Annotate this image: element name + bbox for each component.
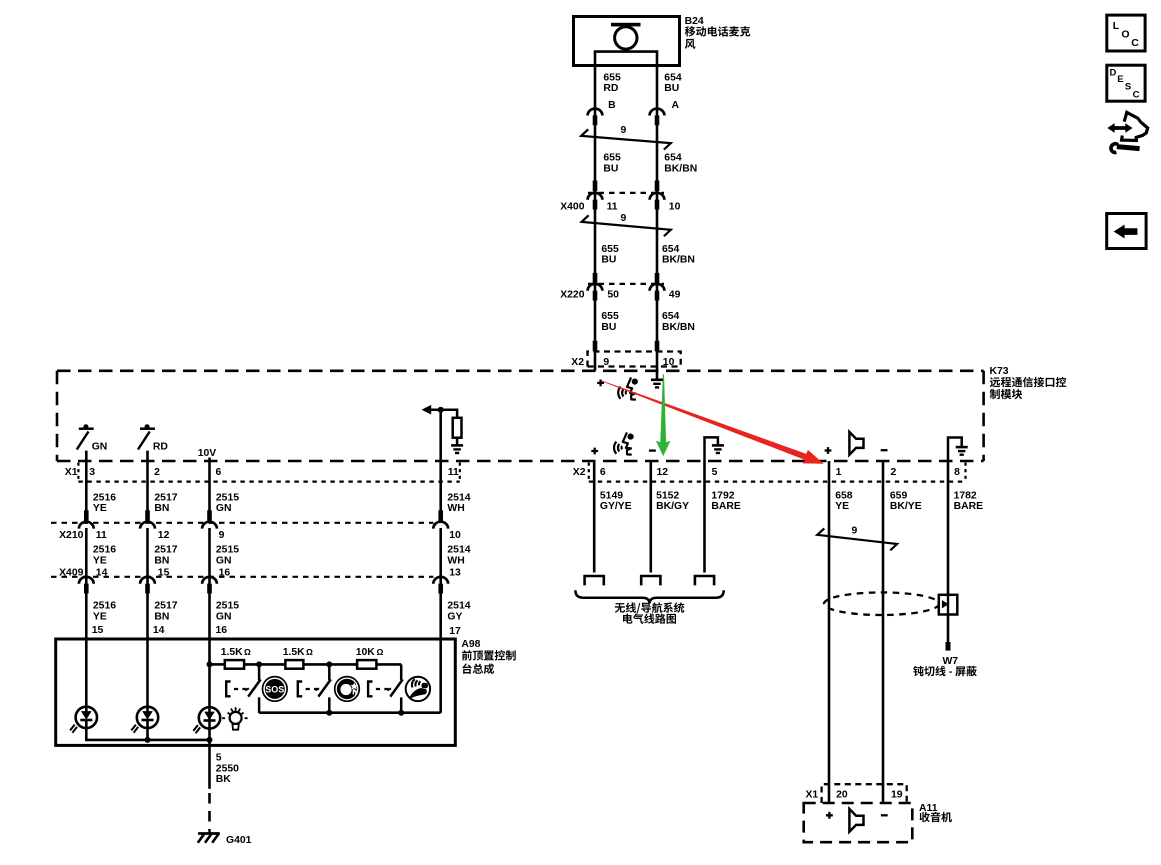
LED L3 xyxy=(193,707,220,733)
switch S3 (phone) xyxy=(387,664,403,713)
svg-text:E: E xyxy=(1117,74,1123,85)
connector X210 terminal pin 9 xyxy=(202,510,217,528)
radio speaker icon xyxy=(849,809,863,832)
svg-text:BK/BN: BK/BN xyxy=(662,322,695,333)
svg-text:C: C xyxy=(1133,89,1140,100)
svg-text:11: 11 xyxy=(96,530,107,541)
svg-text:10V: 10V xyxy=(198,448,217,459)
ground symbol under resistor xyxy=(451,445,463,453)
wire from RD LED to pin 2 xyxy=(146,451,149,523)
wire from 10V to pin 6 xyxy=(208,458,211,523)
pull-up resistor inside K73 xyxy=(456,410,459,445)
svg-text:13: 13 xyxy=(449,567,461,578)
svg-text:5149: 5149 xyxy=(600,490,623,501)
node - (speaker) xyxy=(881,449,888,451)
switch S1 bracket xyxy=(226,682,230,697)
svg-text:Ω: Ω xyxy=(377,647,384,657)
LED indicator RD xyxy=(138,424,155,449)
svg-text:A: A xyxy=(672,100,680,111)
svg-text:GN: GN xyxy=(92,441,108,452)
svg-text:YE: YE xyxy=(835,501,849,512)
junction node S3/rail xyxy=(398,710,404,716)
connector X210 terminal pin 10 xyxy=(433,510,448,528)
node - (mic lower) xyxy=(649,449,656,451)
svg-text:9: 9 xyxy=(852,526,858,537)
svg-text:WH: WH xyxy=(447,555,464,566)
svg-text:2515: 2515 xyxy=(216,492,239,503)
svg-text:19: 19 xyxy=(891,790,903,801)
connector X2 dashed box (top) xyxy=(588,352,681,367)
junction node L2/rail xyxy=(145,737,151,743)
wireless/nav note line2 xyxy=(623,613,676,623)
wire pin 5 below A98 xyxy=(208,740,211,789)
junction node on wire 2514 xyxy=(438,407,444,413)
svg-text:2514: 2514 xyxy=(447,601,470,612)
node + (mic input upper) xyxy=(597,380,604,387)
twisted pair symbol 9 (upper) xyxy=(581,129,671,149)
node + (mic lower) xyxy=(591,448,598,455)
LOC button xyxy=(1107,15,1145,51)
wires from X409 into A98 xyxy=(85,586,88,712)
svg-text:X2: X2 xyxy=(571,357,584,368)
svg-text:49: 49 xyxy=(669,290,681,301)
svg-text:2515: 2515 xyxy=(216,601,239,612)
svg-text:O: O xyxy=(1121,28,1129,40)
A98 console box xyxy=(56,639,456,745)
svg-text:655: 655 xyxy=(603,153,621,164)
switch S2 bracket xyxy=(298,682,302,697)
pin terminal on wire 654 at X2 xyxy=(655,341,660,352)
svg-text:BN: BN xyxy=(154,503,169,514)
connector X210 terminal pin 11 xyxy=(79,510,94,528)
svg-text:X1: X1 xyxy=(805,790,818,801)
svg-text:9: 9 xyxy=(621,125,627,136)
svg-text:GN: GN xyxy=(216,611,232,622)
svg-text:6: 6 xyxy=(600,467,606,478)
connector X220 dashed link xyxy=(588,283,664,285)
connector X2 dotted row (bottom of K73) xyxy=(589,463,966,482)
svg-text:2514: 2514 xyxy=(447,545,470,556)
svg-text:8: 8 xyxy=(954,467,960,478)
svg-text:655: 655 xyxy=(601,244,619,255)
pin terminal on wire 655 at X2 xyxy=(593,341,598,352)
lamp symbol xyxy=(222,707,249,730)
svg-text:D: D xyxy=(1110,67,1117,78)
svg-text:11: 11 xyxy=(607,202,618,213)
svg-text:1.5K: 1.5K xyxy=(221,647,243,658)
twisted pair symbol 9 (right) xyxy=(817,528,897,550)
svg-text:1.5K: 1.5K xyxy=(283,647,305,658)
svg-text:X400: X400 xyxy=(560,202,584,213)
shield ellipse xyxy=(824,592,939,615)
svg-text:YE: YE xyxy=(93,503,107,514)
ground G401 xyxy=(198,830,220,843)
DESC button xyxy=(1107,65,1145,101)
svg-text:GY/YE: GY/YE xyxy=(600,501,632,512)
wire W7 end cap xyxy=(946,642,951,651)
svg-text:BU: BU xyxy=(601,255,616,266)
svg-text:Ω: Ω xyxy=(244,647,251,657)
svg-text:BARE: BARE xyxy=(711,501,741,512)
svg-text:9: 9 xyxy=(603,357,609,368)
svg-text:1: 1 xyxy=(836,467,842,478)
speaker icon in K73 xyxy=(849,432,863,455)
svg-text:BK/GY: BK/GY xyxy=(656,501,689,512)
svg-text:BK: BK xyxy=(216,774,232,785)
svg-text:X220: X220 xyxy=(560,290,584,301)
connector X400 dashed link xyxy=(588,192,664,194)
svg-text:GN: GN xyxy=(216,503,232,514)
svg-text:5152: 5152 xyxy=(656,490,679,501)
wire 658 YE (pin 1 to radio) xyxy=(828,461,831,803)
junction node B xyxy=(326,661,332,667)
svg-text:BARE: BARE xyxy=(954,501,984,512)
connector X409 dashed link xyxy=(51,576,433,578)
svg-text:B: B xyxy=(608,100,616,111)
svg-text:2515: 2515 xyxy=(216,545,239,556)
wire 5149 GY/YE xyxy=(593,461,596,573)
svg-text:2550: 2550 xyxy=(216,763,239,774)
radio speaker - node xyxy=(881,814,888,816)
svg-text:X2: X2 xyxy=(573,467,586,478)
switch S1 (SOS) xyxy=(245,664,261,713)
svg-text:RD: RD xyxy=(153,441,169,452)
svg-text:BK/YE: BK/YE xyxy=(890,501,922,512)
svg-text:5: 5 xyxy=(712,467,718,478)
svg-text:BU: BU xyxy=(664,83,679,94)
vehicle service icon xyxy=(1107,112,1147,152)
red annotation arrow xyxy=(601,380,824,464)
svg-text:12: 12 xyxy=(158,530,170,541)
svg-text:50: 50 xyxy=(607,290,619,301)
ground symbol on wire 654 inside K73 xyxy=(651,380,663,388)
shield termination square xyxy=(939,595,958,615)
LED indicator GN xyxy=(77,424,94,449)
phone button icon xyxy=(406,677,430,701)
svg-text:X210: X210 xyxy=(59,530,83,541)
radio connector X1 dashed box xyxy=(822,784,907,803)
svg-text:BK/BN: BK/BN xyxy=(664,163,697,174)
svg-text:GN: GN xyxy=(216,555,232,566)
svg-text:17: 17 xyxy=(449,626,461,637)
switch S2 (OnStar) xyxy=(315,664,331,713)
svg-text:K73: K73 xyxy=(990,366,1009,377)
svg-text:BN: BN xyxy=(154,611,169,622)
svg-text:X1: X1 xyxy=(65,467,78,478)
switch S2 dashed link xyxy=(306,688,319,690)
svg-text:RD: RD xyxy=(603,83,619,94)
svg-text:BK/BN: BK/BN xyxy=(662,255,695,266)
svg-text:2514: 2514 xyxy=(447,492,470,503)
microphone symbol inside B24 xyxy=(611,23,641,27)
svg-text:654: 654 xyxy=(662,244,680,255)
svg-text:11: 11 xyxy=(448,467,459,478)
svg-text:SOS: SOS xyxy=(265,684,284,694)
svg-text:2517: 2517 xyxy=(154,545,177,556)
off-page connector wire 1792 xyxy=(695,576,714,585)
svg-text:14: 14 xyxy=(153,625,165,636)
svg-text:S: S xyxy=(1125,82,1131,93)
connector X409 terminal pin 13 xyxy=(433,577,448,594)
connector X400 terminal on wire 655 xyxy=(588,181,603,210)
svg-text:655: 655 xyxy=(601,311,619,322)
svg-text:6: 6 xyxy=(216,467,222,478)
svg-text:10: 10 xyxy=(663,357,675,368)
connector X220 terminal on wire 655 xyxy=(588,273,603,301)
OnStar button icon xyxy=(335,677,360,702)
svg-text:C: C xyxy=(1131,37,1139,49)
svg-text:1792: 1792 xyxy=(711,490,734,501)
svg-text:2516: 2516 xyxy=(93,492,116,503)
signal arrow to wire 2514 xyxy=(428,408,458,411)
svg-text:16: 16 xyxy=(216,625,228,636)
connector terminal on wire 655 xyxy=(588,109,603,126)
back arrow button xyxy=(1107,214,1146,249)
wire from junction to pin 11 xyxy=(439,410,442,523)
svg-text:2: 2 xyxy=(891,467,897,478)
top rail wire segments xyxy=(210,663,225,666)
connector X210 terminal pin 12 xyxy=(140,510,155,528)
connector X210 dashed link xyxy=(51,522,433,524)
wire 659 BK/YE (pin 2 to radio) xyxy=(882,461,885,803)
svg-text:15: 15 xyxy=(92,625,104,636)
svg-text:9: 9 xyxy=(621,213,627,224)
switch S3 dashed link xyxy=(376,688,389,690)
svg-text:10K: 10K xyxy=(356,647,376,658)
connector X409 terminal pin 14 xyxy=(79,577,94,594)
svg-text:654: 654 xyxy=(662,311,680,322)
switch S1 dashed link xyxy=(234,688,247,690)
wire 655 from B24 pin B xyxy=(594,65,597,370)
svg-text:2516: 2516 xyxy=(93,545,116,556)
svg-text:GY: GY xyxy=(447,611,462,622)
svg-text:654: 654 xyxy=(664,72,682,83)
microphone icon (lower) xyxy=(614,432,634,454)
svg-text:YE: YE xyxy=(93,611,107,622)
svg-text:W7: W7 xyxy=(943,656,959,667)
off-page connector wire 5149 xyxy=(585,576,604,585)
wires between X210 and X409 xyxy=(85,528,88,584)
svg-text:YE: YE xyxy=(93,555,107,566)
connector X409 terminal pin 15 xyxy=(140,577,155,594)
wire 1782 BARE (pin 8 shield) xyxy=(947,461,950,595)
connector terminal on wire 654 xyxy=(650,109,665,126)
LED L1 xyxy=(70,707,97,733)
junction node col16 / rail xyxy=(207,661,213,667)
twisted pair symbol 9 (second) xyxy=(582,215,671,236)
svg-text:WH: WH xyxy=(447,503,464,514)
svg-text:654: 654 xyxy=(664,153,682,164)
svg-text:2517: 2517 xyxy=(154,601,177,612)
svg-text:659: 659 xyxy=(890,490,908,501)
svg-text:Ω: Ω xyxy=(306,647,313,657)
svg-text:1782: 1782 xyxy=(954,490,977,501)
LED L2 xyxy=(131,707,158,733)
svg-text:12: 12 xyxy=(657,467,669,478)
off-page connector wire 5152 xyxy=(641,576,660,585)
svg-text:BN: BN xyxy=(154,555,169,566)
svg-text:10: 10 xyxy=(669,202,681,213)
wire 5152 BK/GY xyxy=(649,461,652,573)
wire from GN LED to pin 3 xyxy=(85,451,88,523)
svg-text:2: 2 xyxy=(154,467,160,478)
svg-text:10: 10 xyxy=(449,530,461,541)
svg-text:A98: A98 xyxy=(461,639,480,650)
junction node A xyxy=(256,661,262,667)
K73 module dashed box xyxy=(57,369,984,372)
junction node S2/rail xyxy=(326,710,332,716)
svg-text:L: L xyxy=(1113,20,1120,32)
svg-text:9: 9 xyxy=(219,530,225,541)
svg-text:BU: BU xyxy=(601,322,616,333)
svg-text:3: 3 xyxy=(89,467,95,478)
node + (speaker) xyxy=(825,447,832,454)
svg-text:2517: 2517 xyxy=(154,492,177,503)
svg-text:20: 20 xyxy=(836,790,848,801)
radio speaker + node xyxy=(826,812,833,819)
svg-text:5: 5 xyxy=(216,753,222,764)
switch S3 bracket xyxy=(368,682,372,697)
microphone icon (upper) xyxy=(618,377,638,399)
ground symbol above pin 8 xyxy=(948,438,962,462)
connector X400 terminal on wire 654 xyxy=(650,181,665,210)
LED bottom rail xyxy=(86,720,209,740)
ground symbol above pin 5 xyxy=(705,437,718,461)
connector X409 terminal pin 16 xyxy=(202,577,217,594)
radio A11 dashed box xyxy=(804,803,913,842)
svg-text:2516: 2516 xyxy=(93,601,116,612)
svg-text:G401: G401 xyxy=(226,835,252,846)
dashed wire to G401 xyxy=(208,793,211,830)
connector X220 terminal on wire 654 xyxy=(650,273,665,301)
green annotation arrow xyxy=(656,374,671,456)
brace to wireless/nav system xyxy=(575,590,723,603)
wireless/nav note line1 xyxy=(615,602,685,613)
resistor R-c body xyxy=(357,660,376,669)
svg-text:B24: B24 xyxy=(685,16,704,27)
svg-text:655: 655 xyxy=(603,72,621,83)
svg-text:BU: BU xyxy=(603,163,618,174)
svg-text:658: 658 xyxy=(835,490,853,501)
SOS button icon xyxy=(263,677,288,702)
microphone B24 box xyxy=(574,17,680,66)
connector X1 dotted row xyxy=(78,463,459,482)
junction node L3/rail xyxy=(207,737,213,743)
switches common rail xyxy=(259,711,441,714)
wire below shield square xyxy=(947,615,950,643)
wire 654 from B24 pin A xyxy=(656,65,659,379)
resistor R-a body xyxy=(225,660,244,669)
wire 1792 BARE xyxy=(703,461,706,573)
resistor R-b body xyxy=(285,660,303,669)
